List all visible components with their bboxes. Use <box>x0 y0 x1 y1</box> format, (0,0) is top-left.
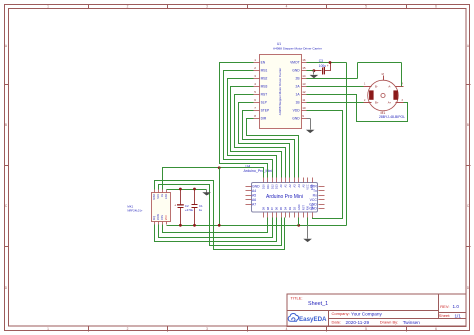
svg-text:D2: D2 <box>292 206 296 210</box>
svg-text:Date:: Date: <box>332 320 342 325</box>
svg-text:GND: GND <box>297 204 301 210</box>
svg-text:A4: A4 <box>297 184 301 188</box>
svg-text:D4: D4 <box>284 206 288 210</box>
svg-text:MISO: MISO <box>153 194 156 200</box>
svg-text:MS1: MS1 <box>261 68 268 72</box>
svg-text:A5: A5 <box>252 193 256 197</box>
svg-text:A7: A7 <box>252 202 256 206</box>
svg-text:Your Company: Your Company <box>351 311 382 316</box>
svg-text:+: + <box>327 64 329 68</box>
svg-text:M: M <box>382 72 384 76</box>
svg-text:MS3: MS3 <box>261 84 268 88</box>
svg-text:1: 1 <box>47 327 49 331</box>
svg-text:D3: D3 <box>288 206 292 210</box>
svg-text:Twinsen: Twinsen <box>403 320 421 325</box>
svg-text:B+: B+ <box>375 101 379 105</box>
svg-text:A5: A5 <box>301 184 305 188</box>
svg-text:Company:: Company: <box>332 311 350 316</box>
svg-text:B: B <box>5 123 7 127</box>
svg-text:C3: C3 <box>319 59 323 63</box>
svg-text:3: 3 <box>206 327 208 331</box>
svg-text:A1: A1 <box>284 184 288 188</box>
svg-text:5: 5 <box>365 4 367 8</box>
svg-text:IRQ: IRQ <box>153 216 156 220</box>
svg-text:D11: D11 <box>266 184 270 189</box>
svg-text:2: 2 <box>127 4 129 8</box>
svg-text:14: 14 <box>302 74 306 78</box>
svg-text:1u: 1u <box>199 208 203 212</box>
svg-text:CSN: CSN <box>161 215 164 220</box>
svg-text:STEP: STEP <box>261 108 270 112</box>
svg-text:GND: GND <box>309 207 317 211</box>
svg-text:DIR: DIR <box>261 116 267 120</box>
svg-text:VMOT: VMOT <box>290 60 300 64</box>
svg-text:Sheet:: Sheet: <box>439 313 451 318</box>
svg-text:1/1: 1/1 <box>455 313 462 318</box>
svg-text:RST: RST <box>301 205 305 211</box>
svg-text:A4988 Stepper Motor Driver Car: A4988 Stepper Motor Driver Carrier <box>273 46 322 50</box>
svg-text:GND: GND <box>165 194 168 200</box>
svg-text:RST: RST <box>261 92 268 96</box>
svg-text:MS2: MS2 <box>261 76 268 80</box>
svg-text:A2: A2 <box>288 184 292 188</box>
svg-text:A4988 Stepper Motor Driver Car: A4988 Stepper Motor Driver Carrier <box>278 68 282 115</box>
svg-text:D7: D7 <box>270 206 274 210</box>
svg-text:REV:: REV: <box>440 304 449 309</box>
svg-text:100u: 100u <box>319 64 326 68</box>
svg-text:VDD: VDD <box>293 108 301 112</box>
svg-text:Rx: Rx <box>313 193 317 197</box>
svg-text:Drawn By:: Drawn By: <box>380 320 398 325</box>
svg-text:1: 1 <box>47 4 49 8</box>
svg-text:DTR: DTR <box>310 185 318 189</box>
svg-text:VCC: VCC <box>310 198 318 202</box>
svg-text:A6: A6 <box>252 198 256 202</box>
svg-text:2: 2 <box>127 327 129 331</box>
svg-text:NRF24L01+: NRF24L01+ <box>127 208 143 212</box>
svg-text:D10: D10 <box>261 184 265 189</box>
svg-text:D13: D13 <box>275 184 279 189</box>
svg-text:4: 4 <box>286 4 288 8</box>
svg-text:3: 3 <box>206 4 208 8</box>
svg-text:CE: CE <box>161 193 164 197</box>
svg-text:B: B <box>467 123 469 127</box>
svg-text:D5: D5 <box>279 206 283 210</box>
svg-text:A3: A3 <box>292 184 296 188</box>
svg-text:D6: D6 <box>275 206 279 210</box>
svg-text:GND: GND <box>252 185 260 189</box>
svg-text:GND: GND <box>292 116 300 120</box>
svg-text:A0: A0 <box>279 184 283 188</box>
svg-text:Arduino Pro Mini: Arduino Pro Mini <box>266 194 303 200</box>
svg-text:U1: U1 <box>277 42 281 46</box>
svg-text:10: 10 <box>302 106 306 110</box>
svg-text:6: 6 <box>435 327 437 331</box>
svg-text:Sheet_1: Sheet_1 <box>308 301 328 307</box>
svg-text:EN: EN <box>261 60 266 64</box>
svg-text:5: 5 <box>365 327 367 331</box>
svg-text:15: 15 <box>302 66 306 70</box>
svg-text:SCK: SCK <box>157 193 160 198</box>
svg-text:D12: D12 <box>270 184 274 189</box>
svg-text:B-: B- <box>375 84 378 88</box>
svg-text:GND: GND <box>309 202 317 206</box>
svg-text:2020-11-29: 2020-11-29 <box>346 320 370 325</box>
svg-text:+: + <box>174 204 176 208</box>
svg-text:GND: GND <box>292 68 300 72</box>
svg-text:A4: A4 <box>252 189 256 193</box>
svg-text:6: 6 <box>435 4 437 8</box>
svg-text:D8: D8 <box>266 206 270 210</box>
svg-text:TITLE:: TITLE: <box>291 295 303 300</box>
svg-text:A-: A- <box>388 84 391 88</box>
svg-text:D9: D9 <box>261 206 265 210</box>
svg-text:A+: A+ <box>388 101 392 105</box>
svg-text:12: 12 <box>302 90 306 94</box>
svg-text:4: 4 <box>286 327 288 331</box>
svg-text:MOSI: MOSI <box>157 214 160 220</box>
svg-text:11: 11 <box>302 98 305 102</box>
svg-text:EasyEDA: EasyEDA <box>299 316 327 323</box>
svg-text:1.0: 1.0 <box>453 304 460 309</box>
svg-text:VCC: VCC <box>165 215 168 220</box>
svg-text:SLP: SLP <box>261 100 268 104</box>
svg-text:13: 13 <box>302 82 306 86</box>
svg-text:16: 16 <box>302 58 306 62</box>
svg-text:+470u: +470u <box>185 208 194 212</box>
svg-text:Tx: Tx <box>313 189 317 193</box>
svg-text:28BYJ-48-BIPOL: 28BYJ-48-BIPOL <box>379 115 405 119</box>
